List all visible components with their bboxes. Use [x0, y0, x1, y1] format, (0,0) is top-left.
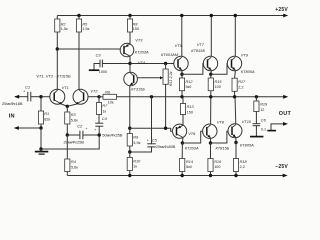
- svg-text:150: 150: [133, 27, 139, 31]
- wire R1 to ground: [40, 128, 42, 149]
- transistor VT5: [174, 56, 188, 70]
- svg-text:2,2: 2,2: [240, 165, 245, 169]
- svg-text:КТ805А: КТ805А: [241, 69, 255, 74]
- resistor R9: [129, 128, 131, 133]
- transistor VT4: [124, 72, 138, 86]
- node VT5 emitter: [180, 73, 183, 76]
- svg-text:VT1, VT2 - КТ315Б: VT1, VT2 - КТ315Б: [36, 74, 71, 79]
- svg-text:1к: 1к: [102, 109, 106, 113]
- wire -25V rail: [68, 175, 284, 177]
- svg-text:0,1: 0,1: [261, 128, 266, 132]
- svg-text:R4: R4: [71, 160, 76, 164]
- wire VT4 base to R11 wiper: [137, 77, 161, 79]
- node R16 bottom rail: [209, 174, 212, 177]
- svg-text:−25V: −25V: [275, 164, 288, 170]
- ground C6: [250, 136, 263, 138]
- ground input: [35, 151, 49, 153]
- svg-text:КТ815Б: КТ815Б: [216, 145, 230, 150]
- svg-text:R15: R15: [215, 80, 223, 84]
- svg-text:IN: IN: [9, 113, 15, 119]
- wire VT5 emitter to VT7 base: [182, 64, 204, 75]
- wire VT4 emitter down: [129, 86, 131, 129]
- svg-text:R13: R13: [187, 105, 195, 109]
- svg-text:C6: C6: [261, 118, 267, 123]
- wire VAS node to VT5 base: [130, 63, 174, 65]
- svg-text:VT2: VT2: [90, 89, 98, 94]
- svg-text:20мкФх16В: 20мкФх16В: [2, 101, 23, 106]
- capacitor C1: [27, 92, 29, 102]
- svg-text:12: 12: [260, 108, 264, 112]
- transistor VT2: [73, 89, 88, 104]
- input terminal lower arrow: [15, 127, 42, 129]
- resistor R12: [181, 74, 183, 78]
- svg-text:+25V: +25V: [275, 7, 288, 13]
- node R17 VT10 collector rail: [233, 95, 236, 98]
- svg-text:КТ203А: КТ203А: [135, 49, 149, 54]
- svg-text:82к: 82к: [44, 118, 50, 122]
- svg-text:C5: C5: [152, 137, 158, 142]
- node C5 top: [150, 95, 153, 98]
- resistor R14: [181, 143, 183, 159]
- resistor R17: [232, 78, 237, 91]
- transistor VT1: [50, 89, 65, 104]
- svg-text:50мкФх25В: 50мкФх25В: [102, 134, 123, 138]
- wire VT10 emitter down: [235, 138, 237, 143]
- resistor R8: [128, 14, 131, 17]
- svg-text:КТ203А: КТ203А: [185, 145, 199, 150]
- resistor R2: [56, 16, 58, 20]
- svg-text:5к0: 5к0: [186, 165, 192, 169]
- svg-text:10к: 10к: [108, 101, 114, 105]
- wire VT7 emitter to VT9 base: [211, 64, 228, 75]
- svg-text:OUT: OUT: [279, 111, 292, 117]
- resistor R3: [66, 106, 68, 112]
- resistor R10: [129, 152, 131, 158]
- svg-text:VT10: VT10: [242, 119, 252, 124]
- resistor R19: [255, 97, 257, 101]
- transistor VT6: [173, 124, 187, 138]
- resistor R5: [77, 14, 80, 17]
- wire VT8 emitter to VT10 base: [211, 131, 228, 143]
- wire VT3 collector down: [129, 56, 131, 63]
- node VT3 VT4 collectors: [128, 62, 131, 65]
- output arrow: [283, 95, 288, 99]
- svg-text:R16: R16: [214, 160, 222, 164]
- svg-text:КТ601АМ: КТ601АМ: [161, 52, 179, 57]
- node VT2 base R6 R7: [97, 95, 100, 98]
- capacitor C5: [151, 97, 153, 144]
- resistor R7: [98, 97, 100, 103]
- trimmer R11: [165, 64, 167, 70]
- svg-text:R1: R1: [44, 112, 49, 116]
- node input lower / R1: [39, 126, 42, 129]
- svg-text:100: 100: [215, 85, 221, 89]
- wire bias node to VT6 base: [130, 128, 173, 131]
- svg-text:5,6к: 5,6к: [71, 118, 78, 122]
- node R14 bottom rail: [181, 174, 184, 177]
- node VT1 base: [39, 95, 42, 98]
- svg-text:VT7: VT7: [197, 42, 205, 47]
- transistor VT3: [120, 43, 134, 57]
- wire VT1 collector: [56, 49, 58, 90]
- resistor R15: [210, 74, 212, 78]
- svg-text:R12: R12: [186, 80, 194, 84]
- capacitor C3: [102, 63, 130, 65]
- ground C3: [89, 69, 99, 71]
- transistor VT10: [228, 124, 242, 138]
- svg-text:1,5к: 1,5к: [82, 27, 89, 31]
- node VT6 collector R14: [181, 141, 184, 144]
- svg-text:C3: C3: [96, 52, 102, 57]
- svg-text:1к: 1к: [133, 165, 137, 169]
- resistor R16: [210, 143, 212, 159]
- capacitor C4: [95, 122, 103, 124]
- svg-text:C1: C1: [25, 85, 30, 90]
- node ground junction: [39, 147, 42, 150]
- svg-text:R10: R10: [133, 159, 141, 163]
- wire R8 to VT3 emitter: [129, 32, 131, 44]
- resistor R4: [66, 135, 68, 159]
- wire node A to VT3 base: [57, 48, 120, 50]
- node C2 C4 ground: [98, 133, 101, 136]
- node R19 rail: [255, 95, 258, 98]
- svg-text:150: 150: [187, 110, 193, 114]
- svg-text:20мкФх50В: 20мкФх50В: [156, 145, 176, 149]
- node VT8 emitter R16: [209, 141, 212, 144]
- svg-text:100: 100: [214, 165, 220, 169]
- capacitor C2: [67, 134, 80, 136]
- svg-text:5к0: 5к0: [186, 85, 192, 89]
- wire +25V rail: [57, 15, 283, 17]
- svg-text:R11 2,2к: R11 2,2к: [169, 71, 173, 86]
- svg-text:5,6к: 5,6к: [71, 165, 78, 169]
- svg-text:VT6: VT6: [188, 131, 196, 136]
- svg-text:VT5: VT5: [175, 43, 183, 48]
- node R15 VT8 collector rail: [209, 95, 212, 98]
- transistor VT9: [227, 56, 241, 70]
- svg-text:КТ815Б: КТ815Б: [191, 48, 205, 53]
- capacitor C6: [253, 123, 261, 125]
- svg-text:VT1: VT1: [62, 85, 69, 90]
- svg-text:1000: 1000: [99, 70, 107, 74]
- svg-text:VT3: VT3: [135, 38, 143, 43]
- node VT4 emitter R9: [128, 127, 131, 130]
- node R9 R10 C5: [128, 150, 131, 153]
- resistor R6: [99, 96, 103, 98]
- wire R5 to VT2 collector: [78, 32, 80, 90]
- transistor VT7: [203, 56, 217, 70]
- resistor R18: [235, 143, 237, 159]
- svg-text:C2: C2: [77, 124, 83, 129]
- svg-text:1,5к: 1,5к: [61, 27, 68, 31]
- svg-text:3,9к: 3,9к: [133, 141, 140, 145]
- node R2 VT1 collector: [56, 47, 59, 50]
- wire VT8 emitter down: [210, 138, 212, 143]
- svg-text:R17: R17: [238, 80, 246, 84]
- wire VT6 collector to VT8 base: [182, 131, 202, 143]
- wire VT6 collector down: [181, 138, 184, 144]
- node R3 R4 C2: [66, 133, 69, 136]
- svg-text:20мкФх25В: 20мкФх25В: [64, 139, 85, 144]
- node VT10 emitter R18: [234, 141, 237, 144]
- node VT7 emitter: [209, 73, 212, 76]
- resistor R13: [182, 97, 184, 104]
- resistor R1: [40, 97, 42, 111]
- svg-text:КТ805А: КТ805А: [240, 142, 254, 147]
- svg-text:C4: C4: [102, 116, 108, 121]
- svg-text:R18: R18: [240, 160, 248, 164]
- node R18 bottom rail: [234, 174, 237, 177]
- svg-text:VT9: VT9: [241, 52, 249, 57]
- svg-text:КТ315Б: КТ315Б: [131, 86, 145, 91]
- node R11 bottom: [164, 127, 167, 130]
- output terminal lower: [271, 124, 283, 130]
- svg-text:VT4: VT4: [138, 60, 146, 65]
- svg-text:VT8: VT8: [217, 119, 225, 124]
- node R10 bottom rail: [128, 174, 131, 177]
- transistor VT8: [203, 124, 217, 138]
- ground output terminal: [267, 130, 276, 132]
- svg-text:R14: R14: [186, 160, 193, 164]
- input terminal upper arrow: [15, 96, 28, 98]
- node R12 R13 rail: [180, 95, 183, 98]
- wire ground bus to C4/C2 node: [41, 135, 99, 149]
- node R11 top: [164, 62, 167, 65]
- svg-text:R19: R19: [260, 103, 268, 107]
- node VT1 VT2 emitters: [66, 105, 69, 108]
- svg-text:2,2: 2,2: [238, 85, 243, 89]
